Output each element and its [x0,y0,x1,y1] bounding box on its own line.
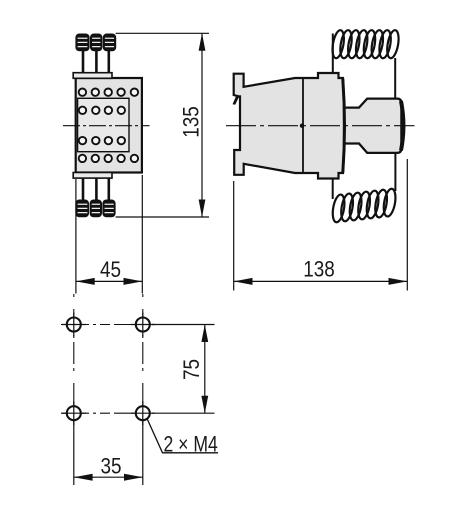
side view group [226,29,415,223]
terminal clamp bottom [75,200,115,218]
extension line left [73,421,75,485]
hole bottom-left [67,406,81,420]
label 75 [180,359,205,380]
dimension 45 [76,175,142,294]
body outer [76,78,142,173]
body silhouette with DIN clip [234,73,345,179]
column centerline right [142,294,144,421]
arrow right 138 [389,278,408,285]
circle row 2 [79,107,125,114]
label 2xM4 [164,433,218,457]
dimension line [74,476,143,478]
label 45 [100,257,121,282]
dimension line vertical [201,33,203,217]
bottom cap strip [73,173,112,179]
dimension 35 [74,421,143,485]
inner panel [78,98,129,151]
arrow left 35 [74,474,93,481]
centerline front [63,125,150,127]
crosshair ticks [62,313,155,426]
cap end thick arc [401,101,403,151]
mounting hole view [61,294,155,425]
extension line right [406,159,408,291]
dimension line [204,325,206,414]
arrow right 45 [124,278,143,285]
terminal clamp top 1 [75,34,116,52]
internal division line [302,79,304,173]
hole bottom-right [136,406,150,420]
label 35 [100,454,121,479]
arrow up 135 [199,33,206,51]
spring bottom leg right [394,153,396,191]
body right edge thick [343,79,345,173]
centerline side [226,125,415,127]
circle row top [79,89,138,96]
extension line bottom [152,412,215,414]
label 138 [303,257,335,282]
extension line right [141,175,143,294]
wire stems top [83,51,109,74]
row centerline bottom [61,412,152,414]
svg-text:35: 35 [100,454,121,479]
leader 2xM4 [147,418,218,453]
extension line right [142,421,144,485]
wire stems bottom [83,178,109,200]
spring top leg left [332,34,334,74]
arrow left 138 [234,278,253,285]
terminal slits top [78,38,115,46]
terminal slits bottom [78,204,114,212]
arrow down 135 [199,200,206,218]
dimension 75 [152,325,215,414]
arrow left 45 [76,278,95,285]
arrow down 75 [201,396,208,414]
hole top-left [67,318,81,332]
column centerline left [73,294,75,421]
dimension line [76,280,142,282]
circle row bottom [79,155,138,162]
dimension 138 [234,159,408,291]
spring top leg right [394,58,396,98]
row centerline top [61,324,152,326]
extension line top [152,324,215,326]
center dimple [300,124,304,128]
front view group [63,34,150,218]
neck and cap cylinder [344,99,401,153]
svg-text:135: 135 [179,106,204,138]
circle row 3 [79,137,125,144]
svg-text:2 × M4: 2 × M4 [164,433,218,457]
spring bottom leg left [332,179,334,200]
extension line left [233,181,235,291]
arrow up 75 [201,325,208,343]
svg-text:45: 45 [100,257,121,282]
svg-text:138: 138 [303,257,335,282]
arrow right 35 [124,474,143,481]
dimension 135 [116,33,209,217]
extension line bottom [116,216,209,218]
hole top-right [136,318,150,332]
spring top coil [331,29,401,59]
spring bottom coil [331,188,397,223]
extension line left [75,179,77,294]
top cap strip [73,73,112,79]
dimension line [234,280,408,282]
svg-text:75: 75 [180,359,205,380]
label 135 [179,106,204,138]
extension line top [116,32,209,34]
